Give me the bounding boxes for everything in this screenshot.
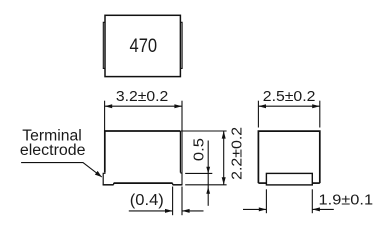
- svg-text:0.5: 0.5: [190, 138, 207, 161]
- svg-text:electrode: electrode: [20, 142, 86, 159]
- svg-text:3.2±0.2: 3.2±0.2: [116, 88, 168, 105]
- svg-text:470: 470: [130, 35, 158, 57]
- svg-text:2.2±0.2: 2.2±0.2: [228, 127, 245, 180]
- svg-text:2.5±0.2: 2.5±0.2: [263, 88, 316, 105]
- svg-text:1.9±0.1: 1.9±0.1: [319, 192, 374, 209]
- svg-text:(0.4): (0.4): [130, 192, 164, 209]
